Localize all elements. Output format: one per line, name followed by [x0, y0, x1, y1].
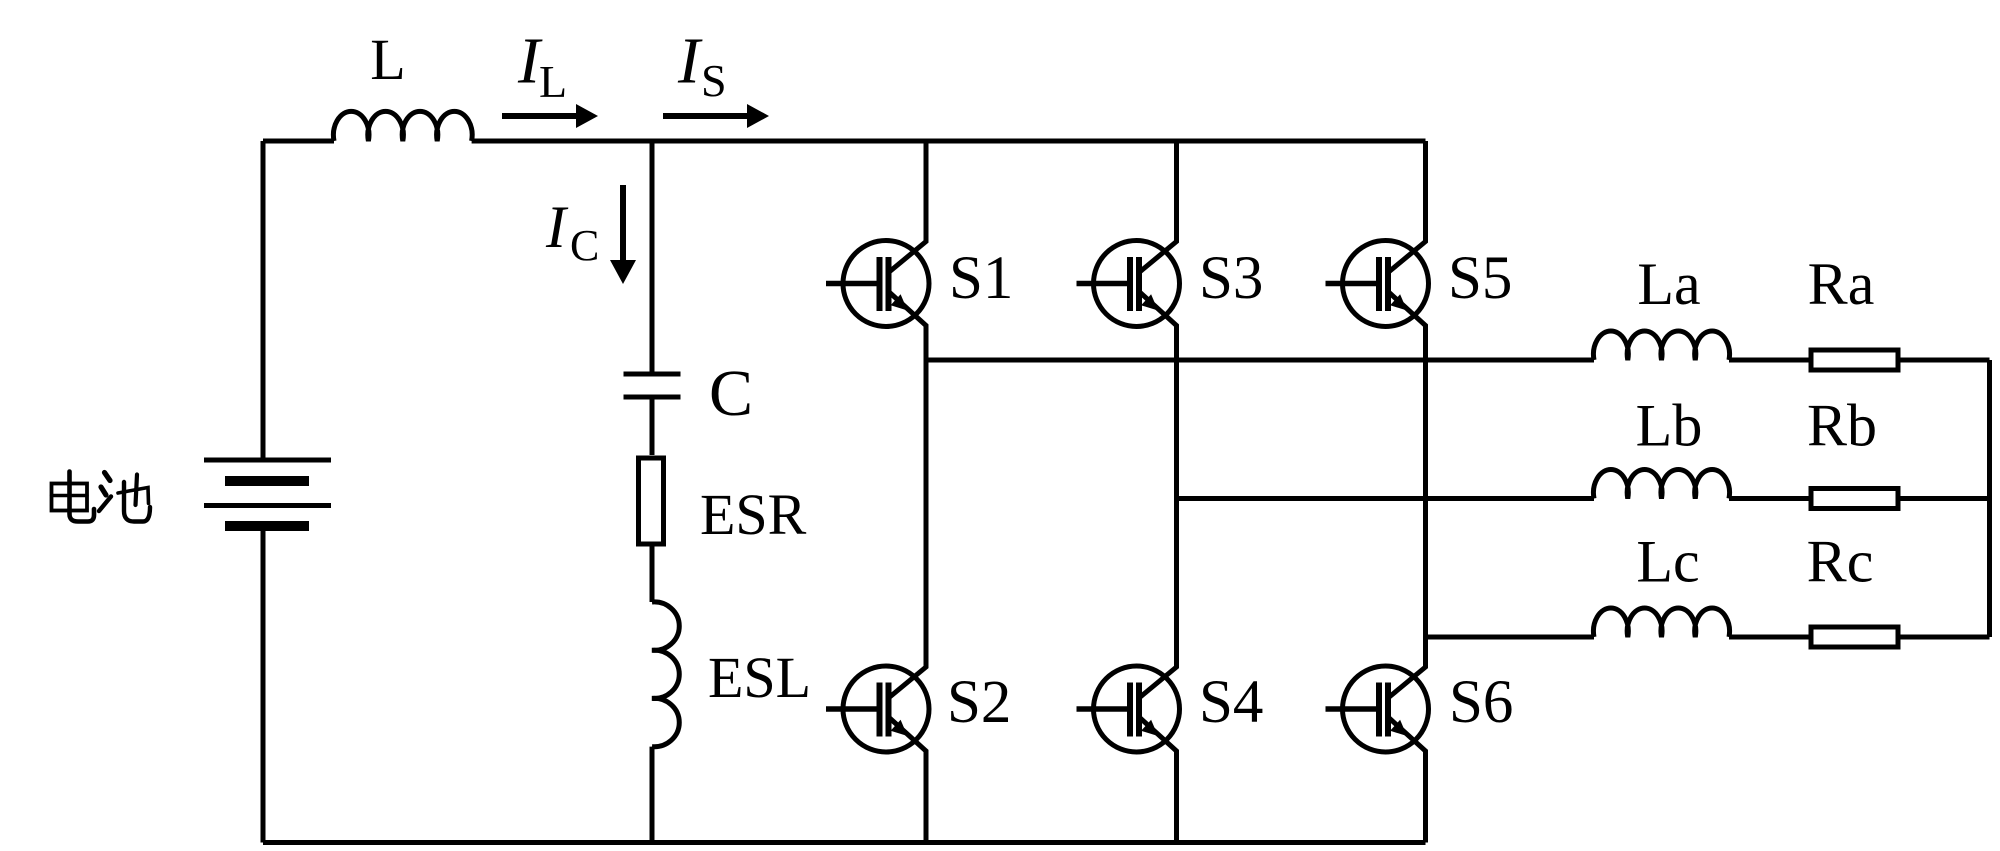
svg-text:S1: S1	[949, 245, 1013, 312]
svg-text:S6: S6	[1449, 669, 1513, 736]
svg-text:S3: S3	[1199, 245, 1263, 312]
svg-text:L: L	[370, 27, 405, 92]
svg-text:La: La	[1637, 251, 1700, 317]
svg-text:Lb: Lb	[1636, 393, 1703, 459]
svg-text:ESL: ESL	[708, 645, 811, 710]
svg-text:ESR: ESR	[700, 482, 807, 547]
svg-text:L: L	[539, 56, 567, 107]
svg-text:Rc: Rc	[1807, 529, 1874, 595]
svg-text:C: C	[709, 357, 753, 430]
svg-text:S2: S2	[947, 669, 1011, 736]
svg-text:Ra: Ra	[1808, 251, 1875, 317]
svg-text:S5: S5	[1448, 245, 1512, 312]
svg-text:S: S	[701, 55, 727, 106]
svg-text:I: I	[545, 194, 569, 260]
svg-text:I: I	[677, 25, 703, 98]
svg-text:Rb: Rb	[1807, 393, 1877, 459]
svg-text:C: C	[570, 221, 599, 270]
svg-text:Lc: Lc	[1636, 529, 1699, 595]
svg-text:S4: S4	[1199, 669, 1263, 736]
